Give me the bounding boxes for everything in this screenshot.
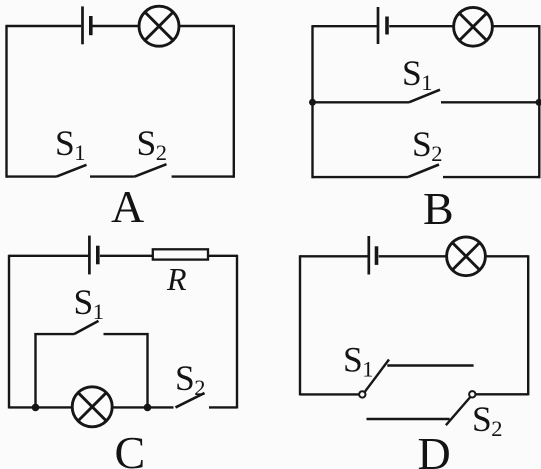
switch S2 blade (circuit B) [408,165,439,178]
switch S1 blade (circuit C) [74,321,99,334]
wire: circuit C inner branch top-left segment [34,333,74,335]
wire: circuit B top segment battery to lamp [389,25,539,27]
lamp (circuit C) [72,387,112,427]
wire: circuit A bottom-left segment [7,175,57,177]
wire: circuit C inner branch left vertical [34,333,36,407]
wire: circuit C inner branch top-right segment [104,333,149,335]
wire: circuit A right vertical [233,25,235,178]
switch S1 blade (circuit B) [409,90,440,103]
svg-text:B: B [423,183,454,234]
junction node: circuit B middle-left [309,99,316,106]
svg-text:S1: S1 [343,340,374,382]
wire: circuit B right vertical [538,25,540,178]
svg-text:S2: S2 [412,124,443,166]
wire: circuit A left vertical [5,25,7,178]
wire: circuit D switch S2 fixed contact [367,418,450,420]
wire: circuit C right vertical [236,255,238,409]
wire: circuit B middle branch left segment [313,101,410,103]
svg-text:S1: S1 [74,282,105,324]
wire: circuit D right vertical [527,255,529,395]
wire: circuit C top segment left of battery [9,255,89,257]
svg-text:S2: S2 [175,358,206,400]
wire: circuit B bottom right segment [443,176,539,178]
junction node: circuit C bottom-left [32,404,40,412]
resistor R (circuit C) [153,249,208,259]
wire: circuit A bottom-right segment [172,175,234,177]
wire: circuit C top segment battery to resistor [100,255,153,257]
wire: circuit B left vertical [311,25,313,178]
wire: circuit C bottom right segment [209,406,237,408]
wire: circuit B bottom left segment [313,176,409,178]
switch S2 blade (circuit D) [446,397,470,425]
wire: circuit C inner branch right vertical [146,333,148,407]
svg-text:S2: S2 [137,123,168,165]
lamp (circuit B) [454,7,493,46]
svg-text:D: D [418,428,451,469]
switch S1 blade (circuit A) [57,165,87,177]
junction node: circuit B middle-right [536,99,541,106]
svg-text:S1: S1 [55,123,86,165]
wire: circuit A top-right segment [92,25,234,27]
wire: circuit B middle branch right segment [441,101,539,103]
svg-text:S2: S2 [472,399,503,441]
switch S2 blade (circuit A) [135,164,167,176]
switch S1 blade (circuit D) [365,360,389,392]
junction node: circuit C bottom-right [144,404,152,412]
switch S2 blade (circuit C) [176,393,205,407]
battery (circuit B) [378,7,387,44]
wire: circuit D bottom-left segment [300,393,359,395]
wire: circuit A bottom-middle segment [90,175,135,177]
wire: circuit C bottom left segment [9,406,174,408]
wire: circuit D bottom-right segment [476,393,529,395]
svg-text:S1: S1 [402,53,433,95]
wire: circuit D top segment battery to lamp [379,255,529,257]
wire: circuit C left vertical [8,255,10,409]
switch S2 pivot (circuit D, open circle) [469,391,475,397]
wire: circuit D left vertical [299,255,301,395]
switch S1 pivot (circuit D, open circle) [359,391,365,397]
svg-text:C: C [115,427,146,469]
wire: circuit D switch S1 fixed contact [387,364,473,366]
wire: circuit D top segment left of battery [300,255,369,257]
wire: circuit A top-left segment [7,25,82,27]
lamp (circuit A) [139,6,179,46]
wire: circuit B top segment left of battery [313,25,379,27]
svg-text:R: R [166,261,187,297]
battery (circuit A) [83,6,91,44]
battery (circuit C) [89,236,97,275]
lamp (circuit D) [447,237,486,276]
wire: circuit C top segment resistor to corner [208,255,237,257]
svg-text:A: A [111,181,144,232]
battery (circuit D) [369,236,377,275]
